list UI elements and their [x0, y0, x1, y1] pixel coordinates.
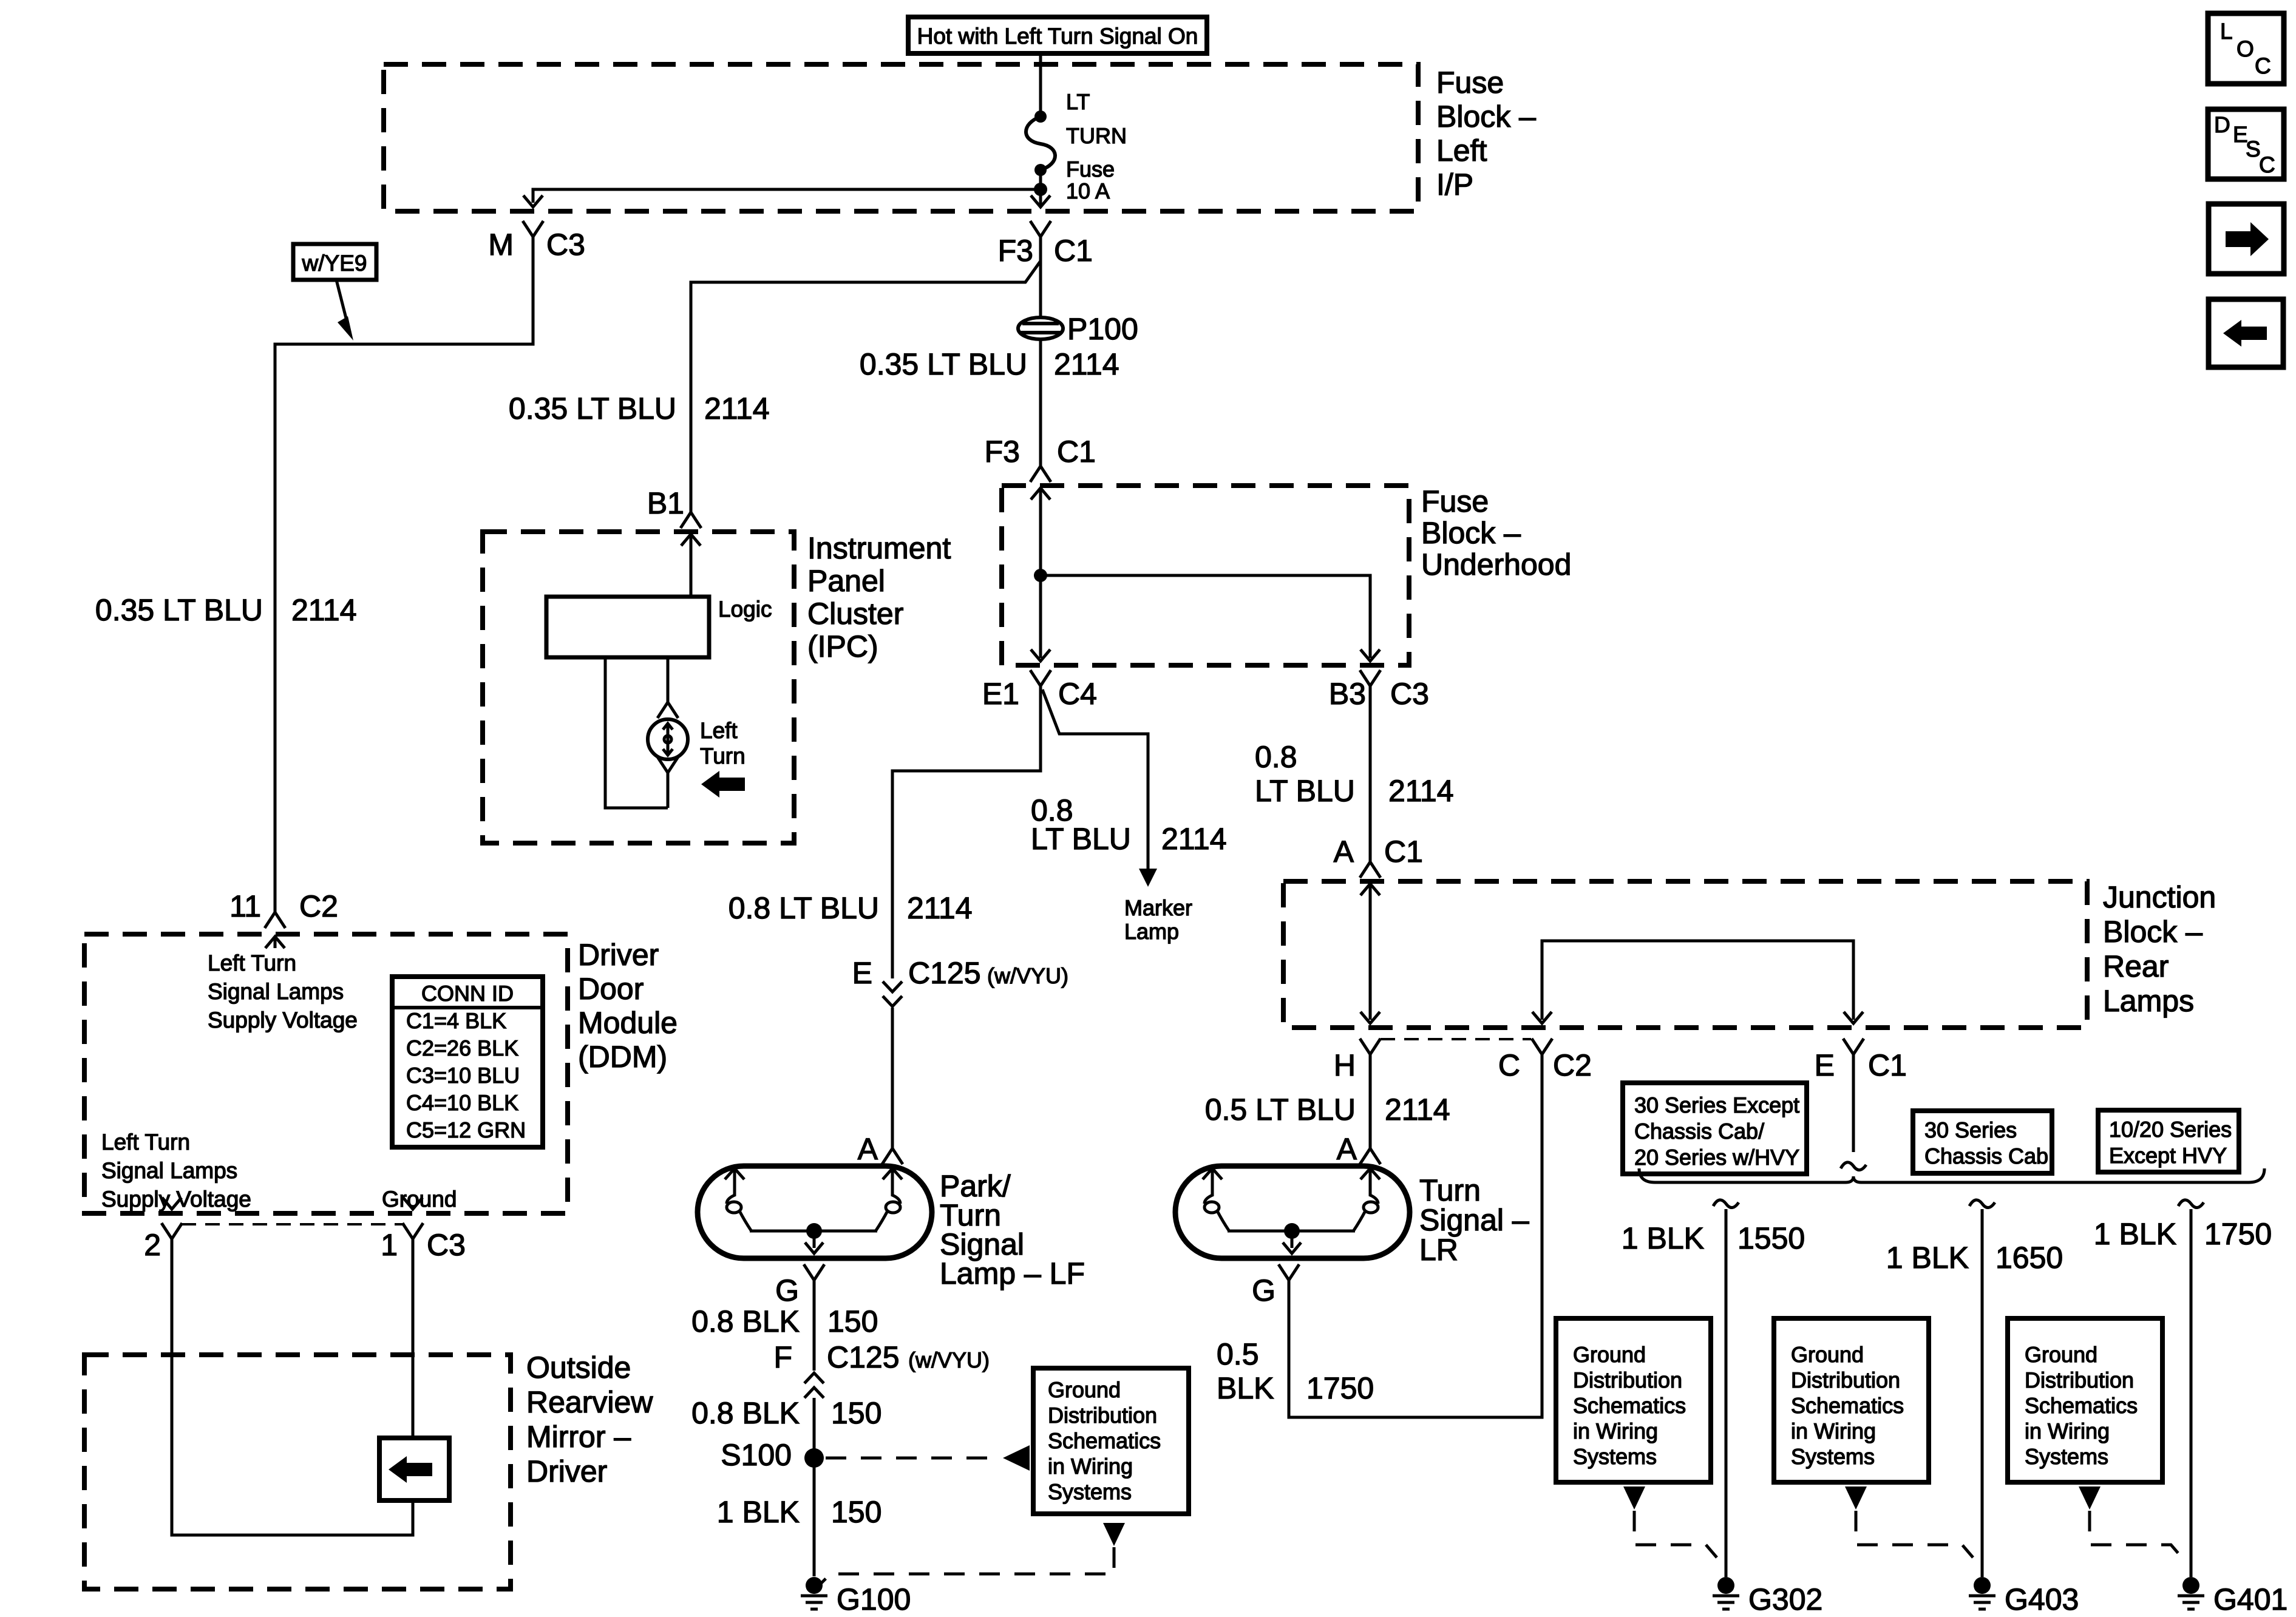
svg-text:30 Series Except: 30 Series Except	[1634, 1093, 1799, 1117]
svg-text:C2=26 BLK: C2=26 BLK	[406, 1036, 518, 1060]
Fuse Block - Left I/P label	[1436, 66, 1536, 202]
svg-text:Chassis Cab/: Chassis Cab/	[1634, 1119, 1764, 1144]
svg-text:Chassis Cab: Chassis Cab	[1924, 1144, 2048, 1168]
svg-text:H: H	[1334, 1048, 1356, 1082]
connector A C1 (junction block)	[1360, 862, 1381, 878]
label Turn Signal - LR	[1419, 1173, 1529, 1267]
connector H	[1360, 1039, 1381, 1054]
svg-text:A: A	[858, 1132, 878, 1166]
svg-text:C: C	[2255, 53, 2271, 78]
svg-text:(w/VYU): (w/VYU)	[908, 1347, 990, 1372]
svg-text:Block –: Block –	[2103, 915, 2203, 949]
DDM pin 2 function label	[101, 1130, 251, 1212]
svg-text:1 BLK: 1 BLK	[1886, 1241, 1969, 1275]
svg-text:Cluster: Cluster	[807, 597, 903, 631]
svg-text:Signal Lamps: Signal Lamps	[101, 1158, 237, 1183]
marker lamp branch	[1042, 690, 1148, 870]
svg-text:Instrument: Instrument	[807, 531, 951, 565]
svg-text:C2: C2	[1553, 1048, 1592, 1082]
svg-text:w/YE9: w/YE9	[302, 251, 367, 276]
bridge	[1542, 941, 1853, 1020]
svg-text:B1: B1	[647, 486, 684, 520]
svg-text:C1=4 BLK: C1=4 BLK	[406, 1008, 506, 1033]
svg-text:C3=10 BLU: C3=10 BLU	[406, 1063, 520, 1088]
svg-text:C4: C4	[1058, 677, 1097, 711]
arrow into edge at F3	[1031, 195, 1050, 207]
ground G302	[1713, 1577, 1739, 1609]
svg-text:1 BLK: 1 BLK	[2094, 1217, 2176, 1251]
svg-text:LT BLU: LT BLU	[1031, 822, 1131, 856]
svg-text:I/P: I/P	[1436, 168, 1473, 202]
svg-text:Left Turn: Left Turn	[208, 951, 296, 975]
svg-text:Turn: Turn	[700, 744, 746, 768]
connector E1 C4	[1030, 670, 1051, 686]
splice S100	[804, 1448, 824, 1468]
w/YE9 arrow	[336, 280, 347, 323]
option box 10/20 Series Except HVY	[2098, 1110, 2239, 1172]
mirror motor box	[379, 1438, 449, 1500]
svg-text:2114: 2114	[907, 891, 973, 925]
svg-text:(IPC): (IPC)	[807, 629, 878, 663]
wire P100 down	[1039, 339, 1042, 466]
label Park/Turn Signal Lamp - LF	[940, 1169, 1085, 1290]
ground G403	[1969, 1577, 1995, 1609]
svg-text:C4=10 BLK: C4=10 BLK	[406, 1090, 518, 1115]
wire F3 to P100	[1039, 237, 1042, 317]
svg-text:LT: LT	[1066, 89, 1090, 114]
svg-text:150: 150	[831, 1495, 881, 1529]
svg-text:1 BLK: 1 BLK	[1622, 1221, 1704, 1255]
connector E C1	[1843, 1039, 1864, 1054]
svg-text:G: G	[775, 1273, 799, 1307]
svg-text:(DDM): (DDM)	[578, 1040, 667, 1074]
svg-text:LR: LR	[1419, 1233, 1458, 1267]
svg-text:Logic: Logic	[718, 597, 772, 622]
svg-text:S: S	[2246, 137, 2261, 161]
Fuse Block Underhood label	[1421, 484, 1571, 581]
svg-text:O: O	[2237, 36, 2254, 61]
wire fuse to junction	[1039, 170, 1042, 205]
svg-text:Mirror –: Mirror –	[526, 1420, 631, 1454]
svg-text:2114: 2114	[291, 593, 357, 627]
svg-text:2114: 2114	[704, 392, 770, 425]
ground drop 1750	[2178, 1200, 2204, 1208]
svg-text:2114: 2114	[1388, 774, 1454, 808]
svg-text:1650: 1650	[1995, 1241, 2063, 1275]
svg-text:2: 2	[144, 1228, 161, 1262]
svg-text:Marker: Marker	[1124, 895, 1192, 920]
svg-text:CONN ID: CONN ID	[421, 981, 514, 1006]
svg-text:Driver: Driver	[578, 938, 659, 972]
svg-text:0.8 BLK: 0.8 BLK	[691, 1396, 800, 1430]
wires inside junction block	[1369, 884, 1372, 1020]
svg-text:1550: 1550	[1737, 1221, 1805, 1255]
svg-text:Left: Left	[700, 718, 738, 743]
connector F3 C1 (second, at underhood block)	[1030, 466, 1051, 482]
Fuse Block - Left I/P dashed box	[384, 64, 1418, 211]
left arrow box	[2209, 299, 2283, 367]
option box 30 Series Except Chassis Cab / 20 Series w/HVY	[1623, 1083, 1807, 1174]
marker lamp arrow	[1139, 869, 1157, 887]
svg-text:M: M	[488, 228, 514, 262]
DDM dashed box	[84, 934, 568, 1213]
svg-text:0.5: 0.5	[1217, 1337, 1259, 1371]
svg-text:Door: Door	[578, 972, 644, 1006]
header box "Hot with Left Turn Signal On"	[908, 17, 1207, 53]
svg-text:Fuse: Fuse	[1436, 66, 1504, 100]
arrow into edge at M	[523, 195, 543, 207]
svg-text:B3: B3	[1329, 677, 1366, 711]
svg-text:1 BLK: 1 BLK	[717, 1495, 800, 1529]
svg-text:2114: 2114	[1054, 347, 1119, 381]
svg-text:G100: G100	[837, 1582, 911, 1616]
svg-text:0.8 BLK: 0.8 BLK	[691, 1304, 800, 1338]
mirror label	[526, 1351, 653, 1488]
svg-text:C1: C1	[1057, 435, 1096, 469]
right arrow box	[2209, 204, 2284, 274]
connector E C125	[883, 981, 902, 1006]
ground distribution box (S100)	[1033, 1368, 1189, 1514]
DDM label	[578, 938, 678, 1074]
svg-text:Panel: Panel	[807, 564, 885, 598]
svg-text:Lamp: Lamp	[1124, 919, 1179, 944]
wires inside underhood block	[1039, 488, 1042, 658]
svg-text:Lamp – LF: Lamp – LF	[940, 1256, 1085, 1290]
mirror wires	[172, 1239, 413, 1535]
ground drop 1550	[1713, 1200, 1739, 1208]
w/YE9 callout box	[293, 244, 376, 280]
svg-text:10/20 Series: 10/20 Series	[2109, 1117, 2232, 1142]
svg-text:LT BLU: LT BLU	[1255, 774, 1355, 808]
svg-text:1750: 1750	[2204, 1217, 2272, 1251]
DDM connector 11 C2	[265, 912, 285, 928]
svg-text:(w/VYU): (w/VYU)	[987, 963, 1068, 988]
svg-text:E: E	[852, 956, 872, 990]
svg-text:C1: C1	[1868, 1048, 1907, 1082]
lamp LR Turn Signal	[1175, 1166, 1410, 1258]
connector B3 C3	[1360, 670, 1381, 686]
svg-text:Turn: Turn	[1419, 1173, 1481, 1207]
svg-text:G302: G302	[1748, 1582, 1822, 1616]
svg-text:20 Series w/HVY: 20 Series w/HVY	[1634, 1145, 1799, 1170]
svg-text:G403: G403	[2005, 1582, 2079, 1616]
thin dashed H to C	[1381, 1038, 1531, 1040]
svg-text:Underhood: Underhood	[1421, 547, 1571, 581]
option box 30 Series Chassis Cab	[1913, 1111, 2052, 1173]
svg-text:D: D	[2214, 112, 2230, 137]
svg-text:A: A	[1337, 1132, 1357, 1166]
svg-text:C3: C3	[1390, 677, 1429, 711]
connector M C3	[523, 221, 543, 237]
svg-text:Driver: Driver	[526, 1454, 607, 1488]
connector A at LR lamp	[1360, 1148, 1381, 1164]
wire junction to M C3	[533, 189, 1041, 203]
svg-text:Except HVY: Except HVY	[2109, 1143, 2227, 1168]
connector G at LR lamp	[1279, 1264, 1299, 1280]
svg-text:2114: 2114	[1161, 822, 1227, 856]
svg-text:C1: C1	[1054, 234, 1093, 268]
wire E C1 to options rail	[1852, 1054, 1855, 1152]
svg-text:10 A: 10 A	[1066, 178, 1110, 203]
svg-text:P100: P100	[1067, 312, 1138, 346]
svg-text:E1: E1	[982, 677, 1019, 711]
Fuse Block - Underhood dashed box	[1002, 486, 1409, 665]
svg-text:150: 150	[831, 1396, 881, 1430]
ground distribution boxes (right)	[1556, 1318, 1711, 1482]
svg-text:Fuse: Fuse	[1421, 484, 1489, 518]
IPC black left arrow	[701, 771, 745, 798]
svg-text:0.35 LT BLU: 0.35 LT BLU	[860, 347, 1027, 381]
ground drop 1650	[1969, 1200, 1995, 1208]
svg-text:Lamps: Lamps	[2103, 984, 2194, 1018]
svg-text:Left Turn: Left Turn	[101, 1130, 190, 1154]
svg-text:Junction: Junction	[2103, 880, 2216, 914]
wire M C3 down and left to w/YE9 corner	[275, 237, 533, 912]
Junction Block label	[2103, 880, 2216, 1018]
indicator lamp Left Turn	[648, 719, 688, 759]
svg-text:BLK: BLK	[1217, 1371, 1274, 1405]
svg-text:11: 11	[229, 889, 261, 923]
svg-text:0.35 LT BLU: 0.35 LT BLU	[95, 593, 263, 627]
DDM pins 2 and 1 C3	[162, 1198, 182, 1209]
svg-text:Rearview: Rearview	[526, 1385, 653, 1419]
svg-text:Block –: Block –	[1436, 100, 1536, 134]
IPC label	[807, 531, 951, 663]
svg-text:1750: 1750	[1306, 1371, 1374, 1405]
svg-text:Outside: Outside	[526, 1351, 631, 1385]
wire C125 to LF lamp	[891, 1008, 894, 1148]
svg-text:1: 1	[381, 1228, 398, 1262]
wire E1 to LF branch	[892, 686, 1041, 978]
svg-text:G: G	[1252, 1273, 1275, 1307]
branch diagonal to B1 wire	[691, 261, 1041, 512]
lamp LF Park/Turn Signal Lamp	[698, 1166, 932, 1258]
svg-text:F: F	[773, 1340, 792, 1374]
svg-text:150: 150	[827, 1304, 878, 1338]
wire B1 to logic box	[690, 534, 693, 597]
svg-text:0.5 LT BLU: 0.5 LT BLU	[1205, 1093, 1356, 1127]
Junction Block - Rear Lamps dashed box	[1283, 881, 2087, 1028]
IPC dashed box	[483, 532, 794, 843]
svg-text:C: C	[1498, 1048, 1520, 1082]
connector F C125	[804, 1373, 824, 1398]
wire H to LR lamp	[1369, 1054, 1372, 1148]
DESC box	[2208, 109, 2284, 179]
svg-text:Fuse: Fuse	[1066, 157, 1115, 181]
svg-text:F3: F3	[998, 234, 1033, 268]
svg-text:Signal –: Signal –	[1419, 1203, 1529, 1237]
fuse LT TURN Fuse 10A	[1034, 110, 1047, 123]
svg-text:Rear: Rear	[2103, 949, 2169, 983]
svg-text:Hot with Left Turn Signal On: Hot with Left Turn Signal On	[917, 24, 1198, 49]
Outside Rearview Mirror dashed box	[84, 1355, 511, 1589]
svg-text:C: C	[2259, 152, 2275, 177]
connector C C2	[1532, 1039, 1552, 1054]
logic box	[546, 597, 709, 657]
svg-text:30 Series: 30 Series	[1924, 1117, 2017, 1142]
svg-text:Signal Lamps: Signal Lamps	[208, 979, 344, 1004]
LOC box	[2208, 13, 2284, 84]
ground G100	[801, 1577, 827, 1609]
junction dot	[1034, 183, 1047, 196]
svg-text:TURN: TURN	[1066, 123, 1127, 148]
wire B3 down	[1369, 686, 1372, 862]
svg-text:Module: Module	[578, 1006, 678, 1040]
svg-text:C5=12 GRN: C5=12 GRN	[406, 1117, 526, 1142]
reference arrow below S100 box	[1103, 1523, 1125, 1546]
svg-text:0.8: 0.8	[1255, 740, 1297, 774]
svg-text:C1: C1	[1384, 835, 1423, 869]
svg-text:F3: F3	[985, 435, 1020, 469]
svg-text:G401: G401	[2213, 1582, 2288, 1616]
wire from header box to fuse	[1039, 53, 1042, 115]
options rail	[1639, 1168, 2264, 1182]
svg-text:C3: C3	[546, 228, 585, 262]
connector G at LF lamp	[804, 1264, 824, 1280]
CONN ID table	[392, 977, 543, 1147]
svg-text:C2: C2	[299, 889, 338, 923]
svg-text:0.8 LT BLU: 0.8 LT BLU	[729, 891, 879, 925]
svg-text:Left: Left	[1436, 134, 1487, 168]
svg-text:C125: C125	[827, 1340, 900, 1374]
svg-text:2114: 2114	[1385, 1093, 1450, 1127]
connector F3 C1 (first)	[1030, 221, 1051, 237]
svg-text:Supply Voltage: Supply Voltage	[101, 1187, 251, 1212]
svg-text:S100: S100	[721, 1438, 792, 1472]
svg-text:Supply Voltage: Supply Voltage	[208, 1008, 358, 1032]
svg-text:C125: C125	[908, 956, 981, 990]
svg-text:Block –: Block –	[1421, 516, 1521, 550]
svg-text:L: L	[2220, 19, 2233, 44]
svg-text:A: A	[1334, 835, 1354, 869]
connector A at LF lamp	[882, 1148, 903, 1164]
ground G401	[2178, 1577, 2204, 1609]
DDM pin 11 function label	[208, 951, 358, 1032]
svg-text:0.35 LT BLU: 0.35 LT BLU	[509, 392, 676, 425]
connector B1 at IPC	[681, 512, 701, 528]
IPC internal wires	[605, 657, 668, 808]
svg-text:C3: C3	[427, 1228, 466, 1262]
grommet P100	[1018, 317, 1063, 339]
svg-text:E: E	[1815, 1048, 1835, 1082]
